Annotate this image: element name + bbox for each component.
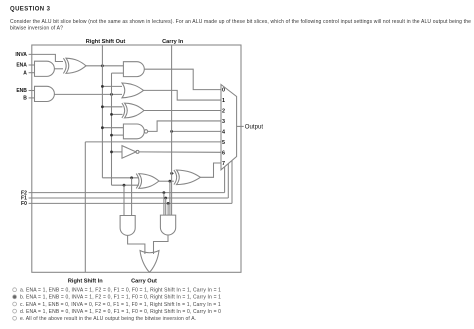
svg-text:INVA: INVA: [15, 52, 27, 58]
svg-text:0: 0: [222, 88, 225, 94]
svg-text:bitwise inversion of A?: bitwise inversion of A?: [10, 25, 63, 31]
svg-text:QUESTION 3: QUESTION 3: [10, 7, 51, 13]
svg-text:Right Shift In: Right Shift In: [68, 279, 103, 285]
svg-text:4: 4: [222, 130, 225, 136]
svg-text:Consider the ALU bit slice bel: Consider the ALU bit slice below (not th…: [10, 19, 471, 25]
svg-text:ENB: ENB: [16, 88, 27, 94]
svg-text:6: 6: [222, 150, 225, 156]
svg-text:7: 7: [222, 161, 225, 167]
svg-text:A: A: [23, 70, 27, 76]
svg-text:a. ENA = 1, ENB = 0, INVA = 1,: a. ENA = 1, ENB = 0, INVA = 1, F2 = 0, F…: [20, 287, 221, 293]
svg-text:c. ENA = 1, ENB = 0, INVA = 0,: c. ENA = 1, ENB = 0, INVA = 0, F2 = 0, F…: [20, 302, 221, 308]
svg-text:F0: F0: [21, 201, 27, 207]
svg-text:2: 2: [222, 109, 225, 115]
svg-text:e. All of the above result in: e. All of the above result in the ALU ou…: [20, 316, 196, 322]
svg-text:Carry In: Carry In: [162, 39, 184, 45]
svg-text:3: 3: [222, 119, 225, 125]
svg-text:Output: Output: [245, 123, 264, 130]
svg-text:Right Shift Out: Right Shift Out: [86, 39, 126, 45]
svg-text:1: 1: [222, 98, 225, 104]
svg-text:B: B: [23, 96, 27, 102]
svg-text:b. ENA = 1, ENB = 0, INVA = 1,: b. ENA = 1, ENB = 0, INVA = 1, F2 = 0, F…: [20, 295, 221, 301]
svg-text:d. ENA = 1, ENB = 0, INVA = 1,: d. ENA = 1, ENB = 0, INVA = 1, F2 = 0, F…: [20, 309, 221, 315]
svg-text:5: 5: [222, 140, 225, 146]
svg-text:Carry Out: Carry Out: [131, 279, 157, 285]
svg-text:ENA: ENA: [16, 63, 27, 69]
